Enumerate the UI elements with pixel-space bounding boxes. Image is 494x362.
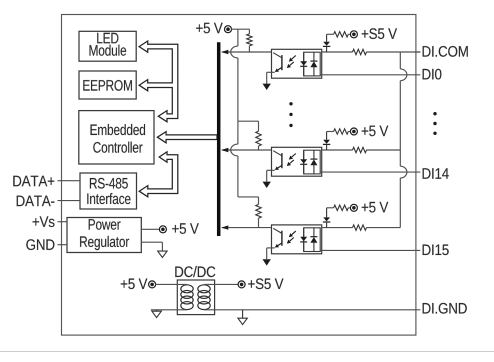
transformer T1 secondary coil <box>198 285 210 310</box>
block Embedded Controller U1 <box>79 111 154 164</box>
hollow arrow: data bus to controller <box>157 132 217 143</box>
optocoupler U2 right input LED (up) <box>310 150 317 174</box>
wire +Vs stub <box>58 221 68 223</box>
label +S5 V (channel 1) <box>362 28 397 39</box>
wire clamp to supply resistor (channel 1) <box>327 33 334 35</box>
wire DC/DC input top <box>155 283 187 285</box>
arrow into data bus (channel 2) <box>221 148 228 152</box>
wire GND stub <box>58 244 68 246</box>
label Power Regulator <box>80 219 129 250</box>
label DC/DC <box>175 266 215 277</box>
wire rail hop over DI0 <box>400 69 407 81</box>
wire regulator ground <box>141 242 162 251</box>
label +5 V (channel 2) <box>362 126 389 137</box>
optocoupler U2 light arrows <box>287 154 296 167</box>
wire to supply terminal (channel 1) <box>348 33 351 35</box>
optocoupler U3 body <box>272 225 322 254</box>
resistor input R (channel 2) <box>353 147 367 152</box>
arrow to internal common (channel 3) <box>263 259 271 265</box>
hollow bus arrows: controller to RS-485 interface <box>139 152 178 197</box>
wire COM side channel 3 <box>322 227 353 229</box>
label DI0 <box>423 69 442 80</box>
ground (DC/DC input) <box>152 310 161 318</box>
terminal +5 V (regulator output) <box>159 226 166 233</box>
wire clamp to supply resistor (channel 3) <box>327 207 334 209</box>
optocoupler U3 light arrows <box>287 231 296 244</box>
label +5 V (channel 3) <box>362 202 389 213</box>
block EEPROM <box>79 71 136 99</box>
label DI15 <box>423 245 449 256</box>
clamp diode D3 <box>323 208 330 228</box>
label LED Module <box>90 33 127 56</box>
wire COM side channel 3 cont <box>367 227 401 229</box>
resistor input R (channel 3) <box>353 225 367 230</box>
wire DI.COM tick <box>416 51 420 53</box>
wire COM side channel 2 cont <box>367 149 401 151</box>
label +Vs <box>33 216 55 227</box>
wire DI.COM rail middle <box>399 81 401 167</box>
wire to supply terminal (channel 2) <box>348 131 351 133</box>
wire bus arrow to optocoupler 1 <box>222 51 272 53</box>
label +5 V (regulator output) <box>172 223 199 234</box>
label Embedded Controller <box>91 124 146 153</box>
label DI.COM <box>423 46 468 57</box>
resistor supply R (channel 2) <box>334 129 349 134</box>
optocoupler U1 light arrows <box>287 56 296 69</box>
wire bus arrow to optocoupler 2 <box>222 149 272 151</box>
resistor pull-up R5 (DI15 channel) <box>256 204 261 218</box>
label DI14 <box>423 168 449 179</box>
wire DI0 line <box>320 74 420 76</box>
wire rail hop over DI14 <box>400 166 407 178</box>
block Power Regulator <box>67 218 141 253</box>
clamp diode D1 <box>323 34 330 52</box>
ellipsis dots (between channel groups) <box>289 102 292 127</box>
terminal +5 V (channel 3) <box>350 204 357 211</box>
wire COM side channel 2 <box>322 149 353 151</box>
ground (isolated side) <box>238 310 247 325</box>
terminal +5 V (top feed) <box>225 26 232 33</box>
wire +5V vertical feed middle <box>237 58 239 121</box>
diagram border <box>62 15 416 336</box>
wire bus arrow to optocoupler 3 <box>222 227 272 229</box>
resistor pull-up R3 (DI14 channel) <box>256 131 261 146</box>
label DI.GND <box>423 303 467 314</box>
wire U2 emitter to common <box>267 170 275 181</box>
DC/DC transformer T1 box <box>177 280 214 315</box>
wire DI.COM rail lower <box>399 178 401 228</box>
wire DATA- stub <box>58 200 81 202</box>
label DATA- <box>17 196 55 207</box>
optocoupler U2 body <box>272 147 322 176</box>
label +5 V (DC/DC input) <box>121 279 148 290</box>
label EEPROM <box>83 80 132 91</box>
optocoupler U1 right input LED (up) <box>310 52 317 76</box>
wire R3 to node <box>258 146 260 150</box>
terminal +S5 V (DC/DC output) <box>238 281 245 288</box>
wire U1 emitter to common <box>267 72 275 83</box>
arrow into data bus (channel 1) <box>221 50 228 54</box>
wire R5 to node <box>258 218 260 227</box>
optocoupler U3 phototransistor <box>273 228 282 247</box>
data bus (thick line) <box>217 42 221 236</box>
optocoupler U1 body <box>272 49 322 78</box>
wire COM side channel 1 <box>322 51 353 53</box>
wire +5V vertical feed lower <box>237 121 239 144</box>
ellipsis dots (right, DI terminals) <box>433 112 436 135</box>
label +S5 V (DC/DC output) <box>248 278 283 289</box>
label +5 V (top feed) <box>196 23 223 34</box>
clamp diode D2 <box>323 132 330 151</box>
wire top feed <box>231 29 249 34</box>
block RS-485 Interface <box>80 173 137 209</box>
resistor input R (channel 1) <box>353 49 367 54</box>
wire DI15 line <box>320 249 420 251</box>
wire DC/DC input bottom <box>151 309 187 311</box>
wire DI.COM rail upper <box>399 52 401 69</box>
ground (regulator) <box>158 251 167 258</box>
wire U3 emitter to common <box>267 248 275 259</box>
label DATA+ <box>13 176 54 187</box>
wire regulator +5V output <box>141 228 160 230</box>
optocoupler U2 phototransistor <box>273 151 282 170</box>
wire DI.GND line <box>204 309 420 311</box>
resistor pull-up R1 (DI0 channel) <box>247 34 252 46</box>
wire branch to R5 <box>238 197 259 205</box>
wire DATA+ stub <box>58 180 81 182</box>
arrow to internal common (channel 1) <box>263 84 271 90</box>
terminal +5 V (channel 2) <box>350 128 357 135</box>
optocoupler U1 phototransistor <box>273 53 282 72</box>
wire DC/DC output top <box>204 283 239 285</box>
optocoupler U1 left input LED (down) <box>300 52 307 76</box>
label RS-485 Interface <box>87 178 130 204</box>
optocoupler U3 LED cell box <box>304 228 321 252</box>
wire R1 to node <box>248 46 250 52</box>
arrow into data bus (channel 3) <box>221 225 228 229</box>
block LED Module <box>79 31 136 61</box>
optocoupler U1 LED cell box <box>304 52 321 76</box>
optocoupler U2 LED cell box <box>304 150 321 174</box>
wire clamp to supply resistor (channel 2) <box>327 131 334 133</box>
wire +5V vertical feed upper <box>237 29 239 46</box>
page rule under figure <box>0 351 494 353</box>
wire COM side channel 1 cont <box>367 51 421 53</box>
terminal +5 V (DC/DC input) <box>149 281 156 288</box>
optocoupler U3 right input LED (up) <box>310 228 317 252</box>
terminal +S5 V (channel 1) <box>350 31 357 38</box>
resistor supply R (channel 3) <box>334 205 349 210</box>
wire branch to R3 <box>238 121 259 131</box>
wire DI14 line <box>320 171 420 173</box>
resistor supply R (channel 1) <box>334 32 349 37</box>
wire hop over DI0 sense wire <box>231 46 238 58</box>
arrow to internal common (channel 2) <box>263 182 271 188</box>
wire to supply terminal (channel 3) <box>348 207 351 209</box>
wire hop over DI14 sense wire <box>231 144 238 156</box>
optocoupler U2 left input LED (down) <box>300 150 307 174</box>
hollow bus arrows: controller to LED Module and EEPROM <box>139 41 178 122</box>
optocoupler U3 left input LED (down) <box>300 228 307 252</box>
label GND <box>26 239 54 250</box>
wire +5V vertical feed bottom <box>237 156 239 197</box>
transformer T1 primary coil <box>181 285 193 310</box>
